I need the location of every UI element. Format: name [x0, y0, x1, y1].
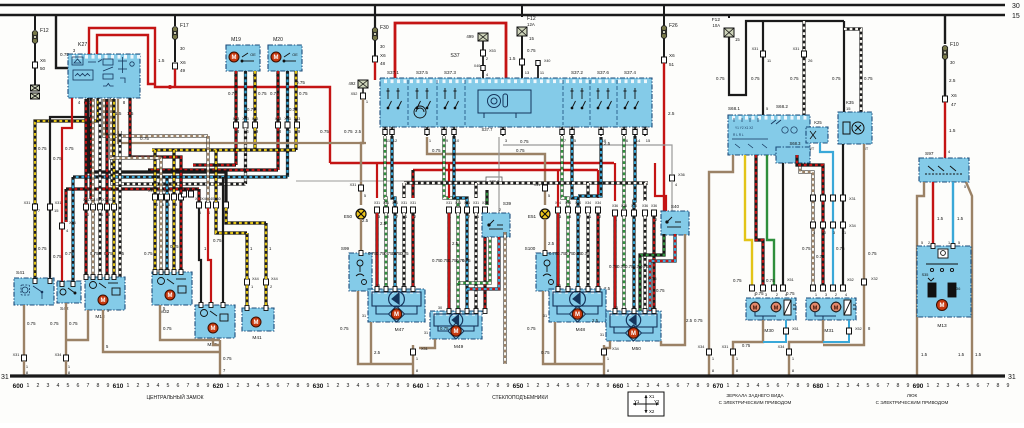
connector X44 b — [264, 279, 269, 285]
svg-text:9: 9 — [807, 383, 810, 389]
svg-text:X40: X40 — [424, 126, 430, 130]
svg-text:X33: X33 — [275, 117, 281, 121]
S40 internal switch — [666, 217, 681, 227]
svg-text:25: 25 — [193, 187, 197, 191]
svg-text:0.75: 0.75 — [340, 326, 349, 331]
connector X34 m31 843 — [841, 222, 846, 228]
wire K53 down — [482, 41, 484, 50]
wire S37 stub 14 — [634, 127, 636, 136]
svg-text:X36: X36 — [678, 173, 685, 177]
wire M48 21 lower — [586, 213, 589, 289]
wire M20 pin2 black-yellow down — [294, 71, 297, 122]
wire m20-6 down — [286, 128, 289, 177]
wire S68 to M31 black-red — [797, 155, 823, 285]
connector X31 M47 18 — [384, 207, 389, 213]
svg-text:31: 31 — [1008, 374, 1016, 381]
connector X36 M50 2 — [643, 210, 648, 216]
bus bw drop m48 — [586, 183, 589, 198]
wire m18 9 down — [91, 210, 94, 277]
svg-text:S35: S35 — [922, 273, 929, 277]
wire S39 bottom cyan link — [467, 237, 499, 289]
svg-text:0.75: 0.75 — [733, 278, 742, 283]
svg-text:1: 1 — [27, 383, 30, 389]
S68 top pin strip — [732, 116, 807, 120]
svg-text:15: 15 — [529, 36, 534, 41]
svg-text:15: 15 — [735, 37, 740, 42]
window motor unit M48 — [549, 289, 606, 322]
M48 motor diamond — [570, 306, 586, 322]
connector row M32 16 — [159, 194, 164, 200]
svg-text:1.5: 1.5 — [127, 111, 134, 116]
connector X34 m31 823 — [821, 222, 826, 228]
svg-text:4: 4 — [557, 383, 560, 389]
svg-text:4: 4 — [457, 383, 460, 389]
connector row M32 10 — [153, 194, 158, 200]
wire X6 red to S97 — [944, 102, 946, 158]
svg-text:7: 7 — [287, 383, 290, 389]
labels 0.75 M50 group — [609, 264, 649, 269]
svg-text:Y1: Y1 — [634, 399, 640, 404]
wire m32-10 up — [153, 150, 156, 194]
svg-text:600: 600 — [13, 383, 24, 390]
connector row M37 4 — [206, 202, 211, 208]
wire M49 17 lower — [465, 213, 468, 311]
svg-text:0.75: 0.75 — [170, 244, 179, 249]
svg-text:6: 6 — [477, 383, 480, 389]
ground mid vertical X31 — [412, 345, 414, 376]
svg-text:Y2: Y2 — [654, 399, 660, 404]
svg-text:X6: X6 — [40, 58, 46, 63]
svg-text:M31: M31 — [824, 328, 834, 334]
switch S39 — [482, 213, 510, 237]
S37 central illumination module — [478, 90, 531, 118]
wire S37 stub 7 — [561, 127, 563, 136]
svg-text:2.5: 2.5 — [604, 141, 611, 146]
wire 492 to X52 — [362, 88, 364, 93]
svg-text:3: 3 — [447, 383, 450, 389]
svg-text:K35: K35 — [846, 100, 854, 105]
svg-text:F10: F10 — [950, 42, 959, 48]
wire S37 stub 15 — [644, 127, 646, 136]
S37 motor symbol inside — [414, 106, 426, 118]
connector X31 midgnd — [411, 349, 416, 355]
svg-text:СТЕКЛОПОДЪЕМНИКИ: СТЕКЛОПОДЪЕМНИКИ — [492, 395, 548, 401]
svg-text:12A: 12A — [527, 22, 535, 27]
wire M50 5 lower — [632, 216, 635, 311]
svg-text:680: 680 — [813, 383, 824, 390]
wire F10 to X6 sunroof — [944, 59, 946, 96]
connector X31 M49 17 — [465, 207, 470, 213]
svg-text:5: 5 — [667, 383, 670, 389]
thin line to S40 — [503, 145, 672, 174]
ground wire S42 brown — [65, 303, 67, 355]
svg-text:5: 5 — [967, 383, 970, 389]
svg-text:15: 15 — [184, 187, 188, 191]
wire m37 pin4 down red — [208, 208, 211, 305]
svg-text:M41: M41 — [252, 335, 262, 341]
brown branch to E51 — [427, 137, 545, 205]
M18 motor circle — [98, 295, 108, 305]
svg-text:0.75: 0.75 — [527, 326, 536, 331]
wire M50 7 upper — [622, 136, 625, 210]
wire mirror v1 black — [762, 21, 764, 115]
svg-text:OE: OE — [250, 53, 256, 57]
connector X44 a — [245, 279, 250, 285]
M37 internal — [201, 310, 229, 322]
connector row M18 16 — [98, 204, 103, 210]
wire F12r down-right-up — [729, 21, 844, 95]
svg-text:9: 9 — [707, 383, 710, 389]
connector M31 pin 1 — [811, 285, 816, 291]
wire S37 stub 6 — [623, 127, 625, 136]
wire M31 X52 bottom — [823, 320, 849, 342]
svg-text:0.75: 0.75 — [258, 91, 267, 96]
connector M30 pin 2 — [772, 285, 777, 291]
svg-text:5: 5 — [67, 383, 70, 389]
labels 0.75 M47 group — [368, 251, 409, 256]
svg-text:X34: X34 — [612, 347, 619, 351]
svg-text:6: 6 — [77, 383, 80, 389]
svg-text:2.5: 2.5 — [548, 241, 555, 246]
connector X31 m31 843 — [841, 195, 846, 201]
M13 motor circle — [937, 300, 948, 311]
svg-text:X34: X34 — [575, 201, 581, 205]
wire S97 blue to M13 — [952, 182, 954, 246]
M49 motor diamond — [448, 323, 464, 339]
connector X34 m31gnd — [787, 349, 792, 355]
fuse F12 left — [32, 31, 37, 44]
connector row tag M48 — [555, 201, 601, 205]
svg-text:X40: X40 — [544, 59, 550, 63]
wire F12mid down — [521, 36, 523, 60]
svg-text:S37.5: S37.5 — [416, 70, 428, 75]
wire S37 stub 9 — [443, 127, 445, 136]
wire m18 25 down — [105, 210, 108, 277]
wire M30 X51 bottom — [763, 320, 786, 342]
block 492 — [358, 80, 368, 88]
wire S39 bottom green link — [458, 237, 490, 283]
svg-text:X32: X32 — [871, 277, 878, 281]
svg-text:15: 15 — [54, 208, 59, 213]
ground K35 brown — [823, 144, 864, 345]
wire line15 to F12 right — [728, 15, 730, 18]
thin line s39 vertical — [498, 137, 500, 214]
svg-text:15: 15 — [646, 138, 651, 143]
svg-text:X36: X36 — [631, 204, 637, 208]
S100 internal — [543, 260, 554, 285]
wire line30 to F26 — [663, 5, 665, 26]
svg-text:0.75: 0.75 — [432, 148, 441, 153]
ground wire M37 to line31 — [219, 340, 221, 376]
wire M47 18 lower — [384, 213, 387, 289]
svg-text:5: 5 — [921, 241, 923, 245]
svg-text:1: 1 — [827, 383, 830, 389]
wire S37 stub 1 — [426, 127, 428, 136]
bundle wire red-black y170 — [148, 168, 278, 171]
wire F12 to X6 — [34, 43, 36, 62]
svg-text:0.75: 0.75 — [38, 146, 47, 151]
svg-text:1.5: 1.5 — [975, 352, 982, 357]
connector row tag M47 — [374, 201, 416, 205]
wire red supply horiz — [395, 23, 506, 80]
svg-text:0.75: 0.75 — [228, 91, 237, 96]
svg-text:S37.4: S37.4 — [624, 70, 636, 75]
ground M48 brown — [554, 322, 556, 364]
svg-text:2: 2 — [537, 383, 540, 389]
window motor unit M50 — [606, 311, 661, 341]
svg-text:X40: X40 — [559, 126, 565, 130]
connector X51 m30 bottom — [784, 328, 789, 334]
svg-text:2: 2 — [137, 383, 140, 389]
M48 motor circle — [572, 309, 582, 319]
svg-text:31: 31 — [543, 314, 547, 318]
connector X6 49 — [173, 63, 178, 69]
svg-text:3: 3 — [247, 383, 250, 389]
connector X33 group 236 pin 8 — [234, 122, 239, 128]
svg-text:2: 2 — [637, 383, 640, 389]
svg-text:7: 7 — [187, 383, 190, 389]
wire M49 17 upper — [454, 136, 467, 207]
connector row M37 3 — [224, 202, 229, 208]
bus bw drop m49 — [474, 183, 477, 198]
svg-text:X31: X31 — [350, 183, 357, 187]
svg-text:S41: S41 — [16, 270, 25, 276]
svg-text:7: 7 — [87, 383, 90, 389]
M19 internal switch — [241, 53, 254, 62]
svg-text:X34: X34 — [585, 201, 591, 205]
svg-text:X52: X52 — [855, 327, 862, 331]
svg-text:8: 8 — [397, 383, 400, 389]
svg-text:1.5: 1.5 — [958, 352, 965, 357]
connector X34 s42 — [60, 223, 65, 229]
svg-text:47: 47 — [951, 102, 957, 107]
svg-text:M: M — [753, 305, 758, 311]
svg-text:30: 30 — [380, 44, 385, 49]
svg-text:4: 4 — [157, 383, 160, 389]
wire M48 23 lower — [556, 213, 559, 289]
svg-text:8: 8 — [897, 383, 900, 389]
wire M47 17 upper — [392, 136, 395, 207]
wire K27 pin4b black bus y172 — [88, 117, 226, 202]
bundle wire cyan-black y177 — [73, 175, 288, 178]
connector X33 group 236 pin 6 — [243, 122, 248, 128]
svg-text:M19: M19 — [231, 37, 241, 43]
ground mid2 vertical X34 — [603, 345, 605, 376]
bundle wire brown y143 — [118, 99, 366, 143]
ground S40 brown — [661, 234, 685, 345]
connector X40 s37top — [481, 66, 485, 71]
wire m18 16 upper — [98, 99, 101, 204]
labels 0.75 m31 wires — [802, 246, 845, 259]
svg-text:X51: X51 — [792, 327, 799, 331]
svg-text:1.5: 1.5 — [921, 352, 928, 357]
wire stub s37 top2 — [537, 60, 539, 78]
svg-text:5: 5 — [467, 383, 470, 389]
svg-text:9: 9 — [307, 383, 310, 389]
svg-text:X31: X31 — [473, 201, 479, 205]
connector M30 pin 3 — [761, 285, 766, 291]
connector row M37 1 — [214, 202, 219, 208]
wire S37 stub 11 — [384, 127, 386, 136]
svg-text:7: 7 — [387, 383, 390, 389]
lock motor M18 — [85, 277, 125, 310]
svg-text:X33: X33 — [294, 117, 300, 121]
wire m32 181 down — [179, 200, 182, 272]
connector X31 M47 12 — [411, 207, 416, 213]
svg-text:1.5: 1.5 — [937, 216, 944, 221]
M31 internal ground link — [815, 312, 836, 320]
wire m18 114 upper — [112, 99, 115, 204]
svg-text:7: 7 — [887, 383, 890, 389]
svg-text:M: M — [575, 312, 580, 318]
connector X34 M48 21 — [586, 207, 591, 213]
svg-text:30: 30 — [438, 306, 442, 310]
svg-text:X40: X40 — [621, 126, 627, 130]
connector X31 M49 7 — [456, 207, 461, 213]
svg-text:С ЭЛЕКТРИЧЕСКИМ ПРИВОДОМ: С ЭЛЕКТРИЧЕСКИМ ПРИВОДОМ — [719, 400, 792, 405]
lock motor M41 — [242, 308, 274, 331]
wire M48 18 lower — [566, 213, 569, 289]
svg-text:6: 6 — [677, 383, 680, 389]
wire M47 17 lower — [393, 213, 396, 289]
connector X34 m31 813 — [811, 222, 816, 228]
svg-text:0.75: 0.75 — [320, 129, 329, 134]
wire S37 stub 12 — [391, 127, 393, 136]
wire K27 pin4 black to S41 — [50, 98, 88, 278]
wire M49 21 lower — [474, 213, 477, 311]
wire S39 green up — [485, 190, 488, 205]
ground wire S42 branchM18 — [66, 330, 88, 340]
svg-text:S42: S42 — [60, 306, 69, 312]
wire S68 black-red a — [756, 155, 763, 285]
svg-text:X2: X2 — [649, 409, 655, 414]
lock motor M32 — [152, 272, 192, 305]
svg-text:4: 4 — [957, 383, 960, 389]
svg-text:X34: X34 — [55, 353, 62, 357]
wire m37 pin1 down black — [199, 208, 201, 305]
connector row M32 181 — [179, 194, 184, 200]
svg-text:X31: X31 — [446, 201, 452, 205]
wire M20 pin1 black-red down — [276, 71, 279, 122]
wire M47 12 lower — [411, 213, 414, 289]
wire m18 10 upper — [84, 99, 87, 204]
wire M49 7 upper — [444, 136, 458, 207]
M49 top pin strip — [433, 312, 482, 316]
svg-text:50: 50 — [40, 66, 46, 71]
X33-4 tag left — [486, 177, 502, 184]
connector X6 left — [33, 62, 38, 68]
wire S37 stub 16 — [600, 127, 602, 136]
box top pin squares — [33, 244, 955, 314]
svg-text:M: M — [454, 329, 459, 335]
wire F30 to X6-48 — [374, 40, 376, 56]
ground S97 left brown — [917, 182, 924, 376]
wire red branch to bundle right — [170, 87, 330, 163]
S97 pin numbers — [923, 185, 966, 189]
connector X36 M50 5 — [632, 210, 637, 216]
wire M50 7 lower — [622, 216, 625, 311]
K27 bottom pin numbers — [71, 100, 126, 105]
svg-text:E50: E50 — [344, 214, 353, 219]
window motor unit M49 — [430, 311, 482, 339]
brown E50 to S99 — [360, 219, 362, 253]
bundle wire red-black y189 — [66, 187, 199, 190]
svg-text:X31: X31 — [24, 201, 31, 205]
labels 0.75 M48 group — [549, 251, 590, 256]
brown main left vertical — [361, 99, 363, 205]
svg-text:M13: M13 — [937, 323, 947, 329]
svg-text:S39: S39 — [503, 201, 512, 206]
svg-text:M47: M47 — [395, 327, 405, 333]
connector X36 s40 — [670, 175, 675, 181]
svg-text:X31: X31 — [410, 201, 416, 205]
connector X36 M50 12 — [652, 210, 657, 216]
S42 internal switch — [60, 288, 76, 295]
motor circle M19 — [229, 52, 239, 62]
svg-text:0.75: 0.75 — [462, 258, 471, 263]
ground wire M18 brown long — [103, 310, 220, 352]
M18 internal — [90, 282, 121, 296]
connector X31 m31 813 — [811, 195, 816, 201]
svg-text:9: 9 — [907, 383, 910, 389]
svg-text:1: 1 — [627, 383, 630, 389]
labels 0.75 M49 group — [432, 258, 471, 263]
connector X31 s41b — [48, 204, 53, 210]
wire m32-25 up — [172, 150, 175, 194]
svg-text:0.75: 0.75 — [38, 246, 47, 251]
connector row tag M50 — [612, 204, 657, 208]
wire m20-9 down — [294, 128, 297, 150]
svg-text:1: 1 — [927, 383, 930, 389]
wire S37 stub 3 — [502, 127, 504, 136]
svg-text:0.75: 0.75 — [656, 288, 665, 293]
svg-text:X34: X34 — [565, 201, 571, 205]
connector X6 51 — [662, 57, 667, 63]
S41 internal switch — [21, 285, 43, 299]
svg-text:8: 8 — [997, 383, 1000, 389]
K25 internal — [810, 131, 816, 139]
svg-text:X31: X31 — [392, 201, 398, 205]
wire K27 pin12 red-black to M18 — [89, 98, 92, 199]
wire K27 pin6 yellow-black to S41 — [35, 98, 98, 278]
svg-text:X52: X52 — [351, 92, 358, 96]
svg-text:0.75: 0.75 — [864, 76, 873, 81]
svg-text:4: 4 — [57, 383, 60, 389]
svg-text:0.75: 0.75 — [786, 291, 795, 296]
wire S68.3 black to X51 — [782, 163, 784, 285]
scale numbers — [13, 383, 1010, 390]
svg-text:0.75: 0.75 — [440, 326, 449, 331]
svg-text:492: 492 — [349, 81, 357, 86]
connector X40 stub 1 — [425, 130, 429, 135]
svg-text:0.75: 0.75 — [790, 76, 799, 81]
connector X31 25 extra — [189, 191, 194, 197]
svg-text:610: 610 — [113, 383, 124, 390]
connector X34 M48 18 — [566, 207, 571, 213]
wire m37-6 up — [197, 189, 200, 202]
ground M30 brown — [733, 320, 763, 376]
mirror unit M30 — [746, 298, 796, 320]
wire F26 to X6-51 — [663, 38, 665, 57]
svg-text:2: 2 — [437, 383, 440, 389]
svg-text:X40: X40 — [474, 64, 480, 68]
connector X34 M48 12 — [596, 207, 601, 213]
wire F17 to X6-49 — [174, 39, 176, 62]
svg-text:499: 499 — [466, 34, 474, 39]
svg-text:X40: X40 — [632, 126, 638, 130]
svg-text:8: 8 — [597, 383, 600, 389]
S68 internal details — [732, 118, 797, 148]
